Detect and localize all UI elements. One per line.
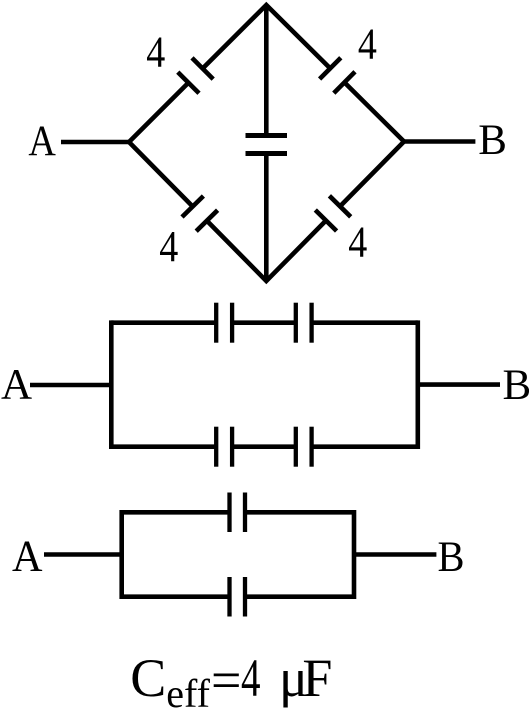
wire right side (middle rect) [415,320,420,449]
wire top vertex (joining both upper arms) [203,5,331,69]
wire top rail segments (middle) [111,320,418,325]
svg-text:C: C [130,648,166,708]
capacitor top (bottom circuit) [230,493,246,533]
svg-text:B: B [478,117,507,164]
wire bottom rail segments (bottom) [122,594,354,599]
caption Ceff = 4 uF [130,648,332,708]
wire right vertex (B node joining both right arms) [340,82,404,206]
wire A lead (bottom) [44,552,122,557]
capacitor upper-right (4 uF) [320,58,355,93]
capacitor top-left (middle, series pair) [216,303,232,343]
capacitor upper-left (4 uF) [178,58,213,93]
svg-text:=: = [211,650,241,708]
wire A lead (middle) [30,383,111,388]
capacitor bottom-right (middle, series pair) [296,427,312,467]
svg-text:eff: eff [166,671,210,708]
svg-text:4: 4 [159,222,178,271]
wire B lead (bridge) [404,139,475,144]
capacitor bottom (bottom circuit) [230,577,246,617]
svg-text:4: 4 [241,648,261,708]
capacitor bottom-left (middle, series pair) [216,427,232,467]
svg-text:A: A [12,531,43,580]
wire B lead (bottom) [354,552,436,557]
wire top rail segments (bottom) [122,510,354,515]
wire bottom vertex (joining both lower arms) [207,221,326,282]
wire B lead (middle) [418,382,500,387]
wire right side (bottom rect) [352,510,357,599]
svg-text:4: 4 [358,20,377,69]
capacitor top-right (middle, series pair) [296,303,312,343]
svg-text:A: A [28,118,56,165]
svg-text:4: 4 [348,217,367,266]
wire center branch top [264,5,269,136]
svg-text:F: F [302,648,332,708]
svg-text:A: A [1,361,32,408]
capacitor lower-right (4 uF) [315,196,350,231]
wire left vertex (A node joining both left arms) [129,83,193,207]
svg-text:4: 4 [146,27,165,76]
capacitor lower-left (4 uF) [182,196,218,231]
svg-text:B: B [438,534,465,581]
wire left side (bottom rect) [119,510,124,599]
wire center branch bottom [264,154,269,282]
svg-text:B: B [503,362,529,409]
wire A lead (bridge) [61,140,129,145]
capacitor center (bridge) [246,136,288,154]
wire left side (middle rect) [109,320,114,449]
wire bottom rail segments (middle) [111,444,418,449]
